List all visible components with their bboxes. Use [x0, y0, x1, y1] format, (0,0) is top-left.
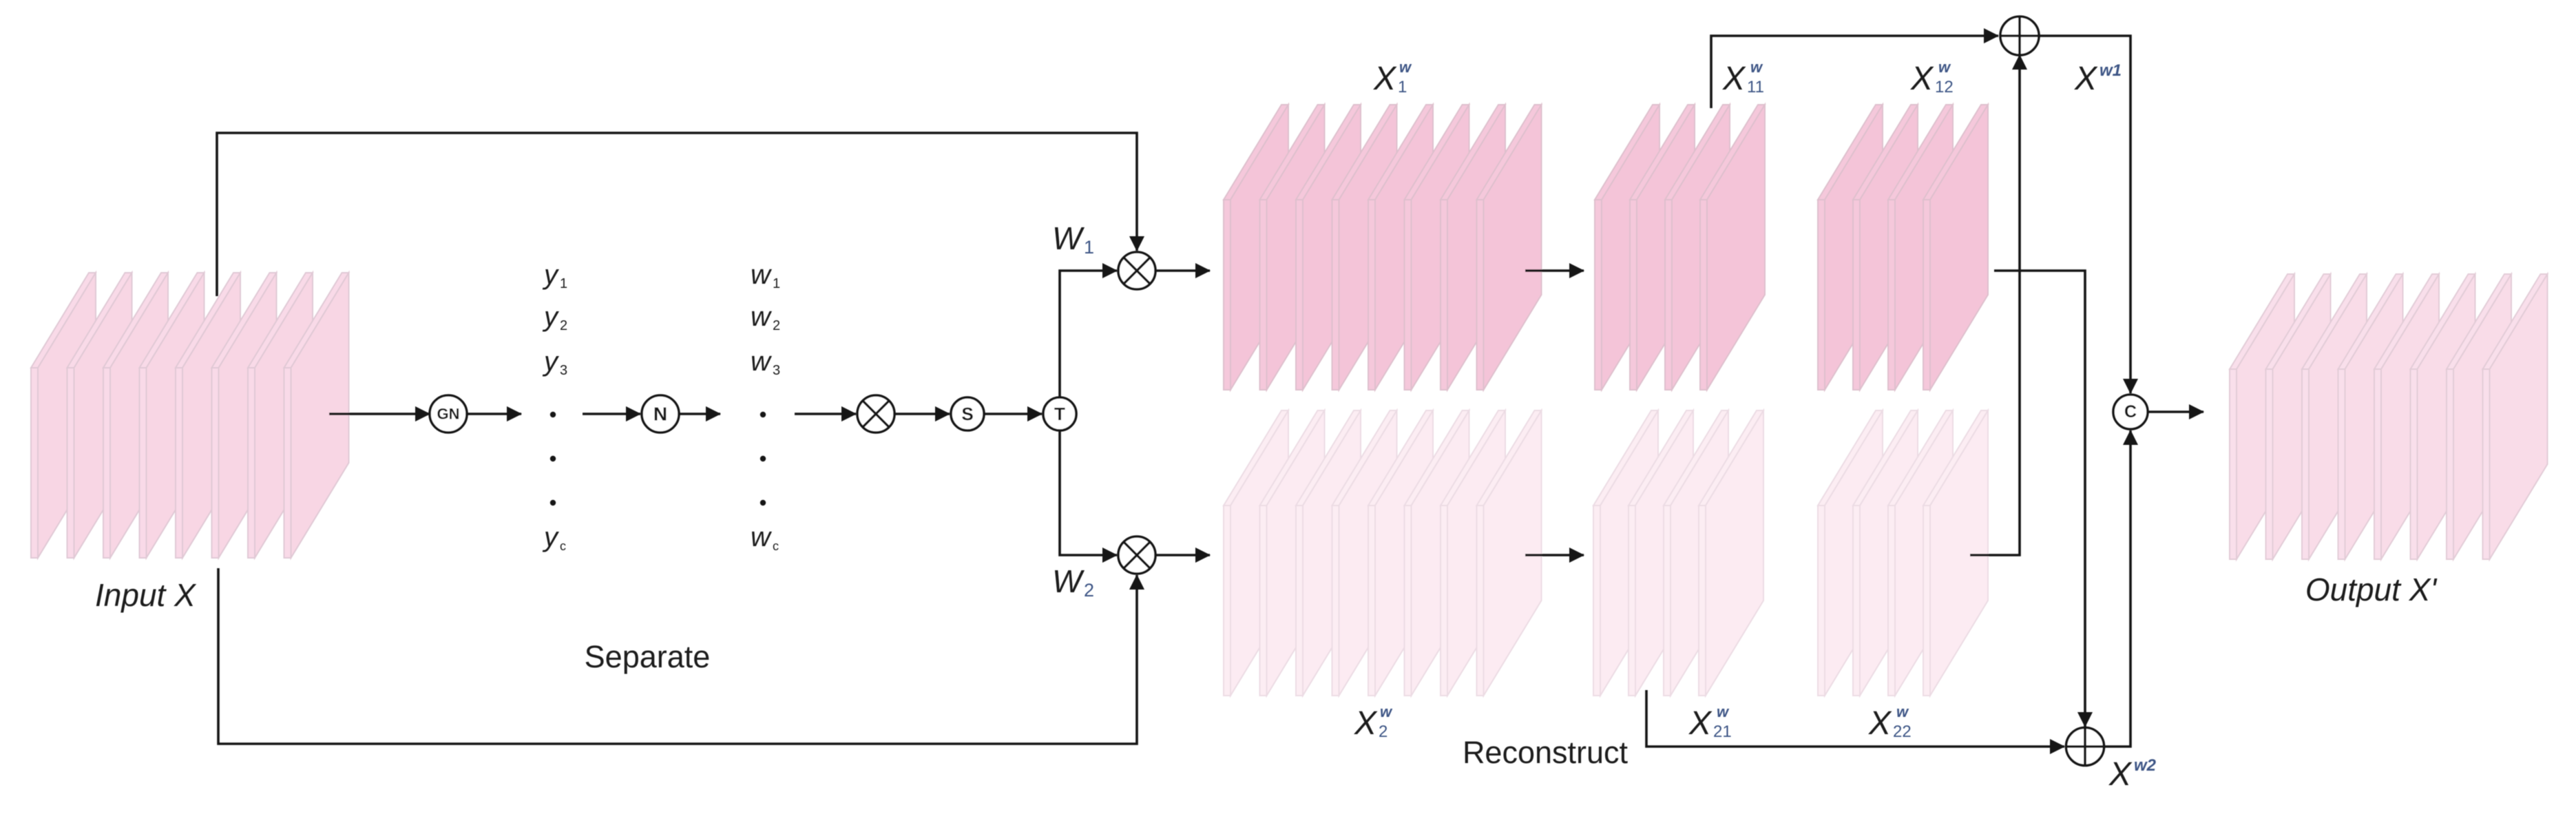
svg-text:w: w	[1399, 59, 1412, 76]
svg-text:11: 11	[1747, 78, 1764, 96]
svg-text:GN: GN	[437, 406, 460, 423]
svg-text:21: 21	[1713, 722, 1732, 741]
svg-text:w: w	[1380, 703, 1393, 720]
svg-text:X: X	[1868, 705, 1892, 742]
svg-text:3: 3	[560, 363, 567, 378]
svg-text:X: X	[1373, 61, 1397, 97]
svg-text:w: w	[751, 346, 773, 377]
svg-text:1: 1	[560, 276, 567, 291]
svg-text:w: w	[1938, 59, 1951, 76]
svg-text:S: S	[961, 404, 973, 424]
svg-text:w: w	[1750, 59, 1763, 76]
svg-text:w: w	[751, 260, 773, 290]
svg-text:w1: w1	[2099, 61, 2122, 80]
svg-text:w: w	[1896, 703, 1909, 720]
svg-text:X: X	[1910, 61, 1934, 97]
svg-text:X: X	[1688, 705, 1713, 742]
svg-text:Input X: Input X	[95, 577, 197, 613]
svg-text:12: 12	[1935, 78, 1954, 96]
svg-text:T: T	[1054, 404, 1065, 424]
svg-text:2: 2	[560, 318, 567, 333]
svg-text:c: c	[773, 539, 779, 553]
svg-text:w2: w2	[2134, 756, 2157, 775]
svg-text:Separate: Separate	[585, 639, 711, 674]
svg-text:1: 1	[1398, 78, 1407, 96]
svg-text:w: w	[1717, 703, 1730, 720]
svg-text:w: w	[751, 522, 773, 552]
svg-text:y: y	[542, 260, 560, 290]
svg-text:2: 2	[773, 318, 780, 333]
svg-text:X: X	[2108, 756, 2133, 793]
svg-text:1: 1	[1084, 237, 1094, 258]
svg-text:y: y	[542, 522, 560, 552]
svg-text:y: y	[542, 302, 560, 332]
svg-text:X: X	[1354, 705, 1378, 742]
svg-text:w: w	[751, 302, 773, 332]
svg-text:W: W	[1052, 563, 1085, 599]
svg-text:X: X	[1722, 61, 1746, 97]
svg-text:c: c	[560, 539, 566, 553]
svg-text:X: X	[2074, 61, 2098, 97]
svg-text:22: 22	[1893, 722, 1912, 741]
svg-text:2: 2	[1379, 722, 1388, 741]
svg-text:2: 2	[1084, 580, 1094, 601]
svg-text:Reconstruct: Reconstruct	[1463, 735, 1629, 770]
svg-text:1: 1	[773, 276, 780, 291]
svg-text:Output X': Output X'	[2305, 572, 2438, 607]
svg-text:3: 3	[773, 363, 780, 378]
svg-text:C: C	[2124, 402, 2137, 421]
svg-text:N: N	[653, 404, 667, 425]
svg-text:W: W	[1052, 220, 1085, 256]
svg-text:y: y	[542, 346, 560, 377]
